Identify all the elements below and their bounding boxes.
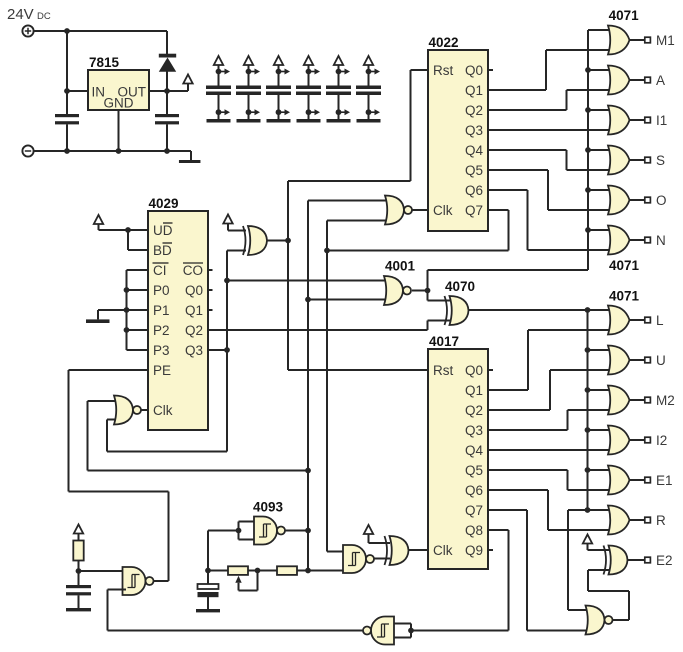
wire XOR U7 output to OR gate L and lower bus xyxy=(469,310,612,510)
wire NOR U2 output to 4022 Clk xyxy=(412,209,428,211)
junction bus at OR gate N xyxy=(585,227,591,233)
junction at diode anode / OUT xyxy=(164,88,170,94)
pin stub 4029 Q0 xyxy=(208,289,213,291)
supply arrow +15V decoupling 1 xyxy=(214,56,223,65)
OR gate 4071 output L xyxy=(608,306,630,335)
wire C3 to ground xyxy=(78,595,80,608)
wire Q7 net vertical (4022 Q7 to NOR U2 bottom, NAND U9 top) xyxy=(327,221,387,552)
svg-text:Q9: Q9 xyxy=(465,543,483,558)
svg-text:Q3: Q3 xyxy=(465,423,483,438)
wire bus stub to I1 top input xyxy=(588,109,611,111)
wire R2 to 4093 net and NAND U9 bottom input xyxy=(297,570,346,572)
overline on CO xyxy=(183,262,203,264)
wire 4017 Q8 to NAND U13 inputs xyxy=(411,530,509,631)
junction C1 at 0V rail xyxy=(64,148,70,154)
junction Q7 net xyxy=(324,248,330,254)
wire 0V bottom rail xyxy=(34,151,191,160)
wire 4022 Q3 to OR gate I1 xyxy=(488,129,611,131)
pin labels 4017 xyxy=(433,363,453,558)
resistor R2 xyxy=(277,566,297,575)
supply arrow +15V decoupling 4 xyxy=(304,56,313,65)
svg-text:GND: GND xyxy=(104,96,134,111)
svg-text:4022: 4022 xyxy=(429,35,459,50)
svg-text:R: R xyxy=(656,513,666,528)
pin stub 4029 Q1 xyxy=(208,309,213,311)
wire +15V to XOR U10 top input xyxy=(369,534,391,543)
wire output O to terminal xyxy=(630,199,645,201)
pin stub 4029 CO xyxy=(208,269,213,271)
decoupling capacitor 2 plates xyxy=(236,86,261,96)
svg-text:Rst: Rst xyxy=(433,63,453,78)
wire 4017 Q3 to OR gate M2 xyxy=(488,410,611,430)
XOR gate U7 shape xyxy=(445,296,469,325)
terminal square N xyxy=(645,237,651,243)
wire NOR U5 output to XOR U7 top input xyxy=(428,291,454,301)
junction decoupling 3 top xyxy=(276,69,282,75)
junction bus at OR gate I1 xyxy=(585,107,591,113)
junction NOR U5 output xyxy=(425,288,431,294)
decoupling capacitor 6 plates xyxy=(356,86,381,96)
svg-text:4017: 4017 xyxy=(429,334,459,349)
wire bus stub to M2 top input xyxy=(588,389,612,391)
voltage regulator 7815 xyxy=(88,70,149,111)
svg-text:Q3: Q3 xyxy=(465,123,483,138)
wire decoupling capacitor 1 xyxy=(218,65,220,119)
OR gate 4071 output M2 xyxy=(608,386,630,415)
svg-text:UD: UD xyxy=(153,223,173,238)
junction lower bus at E1 xyxy=(585,467,591,473)
svg-text:Q1: Q1 xyxy=(185,303,203,318)
svg-text:Q5: Q5 xyxy=(465,463,483,478)
junction 4093 net at 4001 bottom input xyxy=(305,297,311,303)
svg-text:E2: E2 xyxy=(656,553,673,568)
wire bus to R top input and NOR U14 top input xyxy=(568,510,611,610)
wire decoupling capacitor 3 xyxy=(278,65,280,119)
terminal square E2 xyxy=(645,557,651,563)
svg-text:PE: PE xyxy=(153,363,171,378)
wire 4029 Q2 to XOR U7 bottom input xyxy=(208,321,453,331)
pin stub 4022 Q0 xyxy=(488,69,493,71)
OR gate 4071 output M1 xyxy=(608,26,630,55)
terminal square M1 xyxy=(645,37,651,43)
wire 4022 Q6 to OR gate N xyxy=(488,190,611,250)
ground decoupling 5 xyxy=(327,119,351,123)
ground oscillator 1 xyxy=(66,608,91,611)
XOR gate U10 shape xyxy=(385,536,409,565)
logic low bar at 4029 parallel inputs xyxy=(86,310,127,323)
NOR gate U5 shape xyxy=(384,276,411,305)
wire R3 to RC node oscillator 1 xyxy=(79,561,127,572)
svg-text:U: U xyxy=(656,353,666,368)
svg-text:CI: CI xyxy=(153,263,167,278)
wire 4029 PE to oscillator 1 output xyxy=(69,370,169,581)
svg-text:Q0: Q0 xyxy=(465,63,483,78)
ground decoupling 2 xyxy=(237,119,261,123)
junction top rail / input node xyxy=(64,28,70,34)
capacitor C3 plates xyxy=(66,585,91,595)
svg-text:Q6: Q6 xyxy=(465,483,483,498)
wire bus stub to N top input xyxy=(588,229,611,231)
ground decoupling 1 xyxy=(207,119,231,123)
OR gate 4071 output I1 xyxy=(608,106,630,135)
junction lower bus at I2 xyxy=(585,427,591,433)
svg-text:Clk: Clk xyxy=(153,403,173,418)
wire +15V to 4029 UD and BD pins xyxy=(99,224,149,250)
wire 4017 Q5 to OR gate E1 xyxy=(488,470,611,490)
wire decoupling capacitor 5 xyxy=(338,65,340,119)
svg-text:O: O xyxy=(656,193,667,208)
wire 4022 Q7 to Q7 net xyxy=(327,210,509,251)
svg-text:I2: I2 xyxy=(656,433,667,448)
svg-text:Q1: Q1 xyxy=(465,83,483,98)
supply arrow +15V decoupling 3 xyxy=(274,56,283,65)
NOR gate U2 shape xyxy=(385,196,412,225)
wire 4017 Q6 to OR gate R xyxy=(488,490,611,530)
decoupling capacitor 5 plates xyxy=(326,86,351,96)
svg-text:CO: CO xyxy=(183,263,203,278)
wire 7815 GND to 0V rail xyxy=(118,110,120,151)
svg-text:4029: 4029 xyxy=(149,196,179,211)
wire 4017 Q4 to OR gate I2 xyxy=(488,449,611,451)
svg-text:Q4: Q4 xyxy=(465,143,484,158)
svg-text:P2: P2 xyxy=(153,323,170,338)
junction bus at OR gate O xyxy=(585,187,591,193)
wire 4022 Q1 to OR gate M1 xyxy=(488,50,611,90)
svg-text:Q7: Q7 xyxy=(465,503,483,518)
trimmer resistor P1 xyxy=(228,566,258,590)
terminal + (24V input) xyxy=(22,25,33,36)
wire output E1 to terminal xyxy=(630,479,645,481)
pin stub 4017 Q0 xyxy=(488,369,493,371)
decoupling capacitor 1 plates xyxy=(206,86,231,96)
svg-text:A: A xyxy=(656,73,665,88)
supply arrow +15V decoupling 2 xyxy=(244,56,253,65)
junction decoupling 3 bottom xyxy=(276,109,282,115)
capacitor C2 plates xyxy=(155,114,179,124)
diode D1 across regulator xyxy=(159,31,176,91)
svg-text:Q7: Q7 xyxy=(465,203,483,218)
svg-text:4070: 4070 xyxy=(445,279,475,294)
supply arrow +15V at regulator output xyxy=(183,75,192,84)
svg-text:N: N xyxy=(656,233,666,248)
OR gate 4071 output U xyxy=(608,346,630,375)
svg-text:4071: 4071 xyxy=(609,289,640,304)
terminal square R xyxy=(645,517,651,523)
pin labels 4029 left xyxy=(153,223,173,418)
svg-text:Q8: Q8 xyxy=(465,523,483,538)
resistor R3 xyxy=(73,534,83,561)
capacitor C1 plates xyxy=(55,114,79,124)
wire NOR U3 output to 4029 Clk xyxy=(141,409,148,411)
junction decoupling 5 bottom xyxy=(336,109,342,115)
XOR gate E2 shape xyxy=(604,546,628,575)
svg-text:Q1: Q1 xyxy=(465,383,483,398)
wire XOR U4 output to 4022 Rst and 4017 Rst xyxy=(267,70,428,370)
NAND gate U8 shape xyxy=(254,517,285,545)
wire output E2 to terminal xyxy=(628,559,645,561)
svg-text:Q0: Q0 xyxy=(465,363,483,378)
svg-text:P1: P1 xyxy=(153,303,170,318)
svg-text:M1: M1 xyxy=(656,33,675,48)
junction lower bus at R xyxy=(585,507,591,513)
wire 4017 Q1 to OR gate L xyxy=(488,330,611,390)
terminal - (0V input) xyxy=(22,145,33,156)
overlines on UD BD CI xyxy=(153,223,173,263)
pin labels 4022 xyxy=(433,63,453,218)
OR gate 4071 output O xyxy=(608,186,630,215)
svg-text:Rst: Rst xyxy=(433,363,453,378)
wire decoupling capacitor 6 xyxy=(368,65,370,119)
XOR gate U4 shape xyxy=(243,226,267,255)
OR gate 4071 output S xyxy=(608,146,630,175)
junction lower bus at U xyxy=(585,347,591,353)
wire 4022 Q4 to OR gate S xyxy=(488,150,611,170)
wire 24V top rail xyxy=(34,30,167,32)
wire bus stub to I2 top input xyxy=(588,429,612,431)
svg-text:Q3: Q3 xyxy=(185,343,203,358)
junction decoupling 4 top xyxy=(306,69,312,75)
svg-text:Q0: Q0 xyxy=(185,283,203,298)
electrolytic capacitor C4 xyxy=(198,571,219,610)
wire 4022 Q5 to OR gate O xyxy=(488,170,611,210)
junction XOR U4 output xyxy=(285,238,291,244)
wire bus stub to A top input xyxy=(588,69,611,71)
supply arrow +15V decoupling 6 xyxy=(364,56,373,65)
junction P0 tie xyxy=(124,287,130,293)
ground bar xyxy=(179,160,201,163)
wire 4017 Q2 to OR gate U xyxy=(488,370,611,410)
svg-text:Q5: Q5 xyxy=(465,163,483,178)
OR gate 4071 output N xyxy=(608,226,630,255)
wire 4022 Q2 to OR gate A xyxy=(488,90,611,110)
capacitor C3 xyxy=(78,571,80,585)
terminal square O xyxy=(645,197,651,203)
junction decoupling 2 top xyxy=(246,69,252,75)
svg-text:4071: 4071 xyxy=(609,8,640,23)
svg-text:P0: P0 xyxy=(153,283,170,298)
svg-text:L: L xyxy=(656,313,664,328)
terminal square A xyxy=(645,77,651,83)
wire NAND U8 output to 4093 net xyxy=(285,530,308,532)
supply arrow +15V at XOR U10 input xyxy=(364,525,373,534)
junction UD/BD tie xyxy=(125,227,131,233)
svg-text:4001: 4001 xyxy=(385,259,416,274)
junction C2 at 0V rail xyxy=(164,148,170,154)
svg-text:E1: E1 xyxy=(656,473,673,488)
wire output I2 to terminal xyxy=(630,439,645,441)
supply arrow +15V at XOR E2 input xyxy=(583,535,592,544)
junction RC node oscillator 2 xyxy=(205,568,211,574)
svg-text:Q4: Q4 xyxy=(465,443,484,458)
wire NAND U8 input tie bracket xyxy=(208,522,257,571)
supply arrow +15V at 4029 U/D input xyxy=(94,215,103,224)
junction Q3 net at 4001 top input xyxy=(224,278,230,284)
wire NAND U13 input tie bracket xyxy=(394,624,411,638)
junction 7815 GND at 0V rail xyxy=(116,148,122,154)
svg-text:4093: 4093 xyxy=(253,500,284,515)
wire 4017 Q7 to NOR U14 bottom input xyxy=(488,510,588,631)
terminal square S xyxy=(645,157,651,163)
NOR gate U3 shape xyxy=(114,396,141,425)
junction 4093 net bottom xyxy=(305,568,311,574)
wire output M1 to terminal xyxy=(630,39,645,41)
svg-text:DC: DC xyxy=(37,11,51,22)
NAND gate U13 shape xyxy=(363,617,394,645)
OR gate 4071 output A xyxy=(608,66,630,95)
wire RC node to trimmer P1 xyxy=(208,570,228,572)
wire +15V to XOR E2 top input xyxy=(588,544,613,551)
svg-text:S: S xyxy=(656,153,665,168)
junction bus at OR gate A xyxy=(585,67,591,73)
junction decoupling 1 bottom xyxy=(216,109,222,115)
junction P1 tie xyxy=(124,307,130,313)
IC 4022 box xyxy=(428,50,488,231)
IC 4029 box xyxy=(148,211,208,430)
NOR gate U14 shape xyxy=(586,606,613,635)
wire 4093 output net vertical (to NOR U2 top, 4001 bottom, NOR U3 top) xyxy=(308,201,387,571)
wire decoupling capacitor 4 xyxy=(308,65,310,119)
wire Q3 net vertical (4029 Q3 to XOR U4, 4001, NOR U3) xyxy=(208,251,387,452)
IC 4017 box xyxy=(428,349,488,569)
wire 7815 OUT to +15V node xyxy=(149,84,188,92)
junction decoupling 6 bottom xyxy=(366,109,372,115)
ground oscillator 2 xyxy=(196,609,220,612)
svg-text:P3: P3 xyxy=(153,343,170,358)
wire input node down to 7815 IN and C1 xyxy=(67,31,88,114)
junction lower bus at L xyxy=(585,307,591,313)
wire C2 stems xyxy=(166,91,168,151)
wire NOR U14 output to XOR E2 bottom input xyxy=(588,570,629,620)
wire NAND U11 output to PE net xyxy=(154,580,169,582)
svg-text:BD: BD xyxy=(153,243,172,258)
junction RC node oscillator 1 xyxy=(76,568,82,574)
svg-text:Q2: Q2 xyxy=(185,323,203,338)
terminal square I1 xyxy=(645,117,651,123)
wire NOR U3 top input from 4093 output net xyxy=(88,401,309,471)
wire NAND U9 output to XOR U10 bottom input xyxy=(374,558,390,560)
label 24V DC input xyxy=(7,6,51,23)
wire output R to terminal xyxy=(630,519,645,521)
pin labels 4029 right xyxy=(183,263,203,358)
wire NOR U3 bottom input from Q3 net xyxy=(107,420,227,452)
svg-text:4071: 4071 xyxy=(609,258,640,273)
svg-text:Clk: Clk xyxy=(433,203,453,218)
ground decoupling 4 xyxy=(297,119,321,123)
junction bus at OR gate S xyxy=(585,147,591,153)
OR gate 4071 output E1 xyxy=(608,466,630,495)
junction 4093 net at NOR U3 top branch xyxy=(305,468,311,474)
wire bus stub to S top input xyxy=(588,149,611,151)
svg-text:Q2: Q2 xyxy=(465,103,483,118)
decoupling capacitor 4 plates xyxy=(296,86,321,96)
wire NAND U11 bottom input from NAND U13 output xyxy=(108,590,364,631)
supply arrow +15V at XOR U4 input xyxy=(223,215,232,224)
supply arrow +15V decoupling 5 xyxy=(334,56,343,65)
wire +15V to XOR U4 top input xyxy=(228,224,246,231)
svg-text:7815: 7815 xyxy=(89,55,120,70)
junction decoupling 2 bottom xyxy=(246,109,252,115)
ground decoupling 3 xyxy=(267,119,291,123)
wire output S to terminal xyxy=(630,159,645,161)
wire XOR U10 output to 4017 Clk xyxy=(409,549,429,551)
wire NOR U5 output to top OR-gate bus xyxy=(428,30,612,291)
ground decoupling 6 xyxy=(357,119,381,123)
junction P2 tie xyxy=(124,327,130,333)
terminal square U xyxy=(645,357,651,363)
wire bus stub to E1 top input xyxy=(588,469,612,471)
terminal square E1 xyxy=(645,477,651,483)
terminal square M2 xyxy=(645,397,651,403)
wire CI-P0-P1-P2-P3 tie chain xyxy=(127,270,149,350)
svg-text:Q6: Q6 xyxy=(465,183,483,198)
svg-text:24V: 24V xyxy=(7,6,34,23)
junction trimmer wiper tie xyxy=(255,568,261,574)
junction Q3 net at 4029 Q3 pin xyxy=(224,347,230,353)
svg-text:Clk: Clk xyxy=(433,543,453,558)
terminal square L xyxy=(645,317,651,323)
junction at 7815 IN xyxy=(64,88,70,94)
svg-text:Q2: Q2 xyxy=(465,403,483,418)
junction NAND U13 input tie xyxy=(408,628,414,634)
junction NAND U8 output xyxy=(305,528,311,534)
wire bus stub to U top input xyxy=(588,349,612,351)
supply arrow +15V at R3 xyxy=(74,525,83,534)
junction decoupling 6 top xyxy=(366,69,372,75)
junction lower bus at M2 xyxy=(585,387,591,393)
OR gate 4071 output I2 xyxy=(608,426,630,455)
junction decoupling 5 top xyxy=(336,69,342,75)
terminal square I2 xyxy=(645,437,651,443)
junction decoupling 4 bottom xyxy=(306,109,312,115)
wire decoupling capacitor 2 xyxy=(248,65,250,119)
junction decoupling 1 top xyxy=(216,69,222,75)
wire output A to terminal xyxy=(630,79,645,81)
wire output I1 to terminal xyxy=(630,119,645,121)
wire output M2 to terminal xyxy=(630,399,645,401)
NAND gate U9 shape xyxy=(343,545,374,573)
pin stub 4017 Q9 xyxy=(488,549,493,551)
decoupling capacitor 3 plates xyxy=(266,86,291,96)
wire output U to terminal xyxy=(630,359,645,361)
OR gate 4071 output R xyxy=(608,506,630,535)
wire C1 to 0V rail xyxy=(66,124,68,151)
svg-text:I1: I1 xyxy=(656,113,667,128)
wire NOR U5 output node xyxy=(412,290,428,292)
NAND gate U11 shape xyxy=(123,567,154,595)
wire output N to terminal xyxy=(630,239,645,241)
junction NAND U8 input tie xyxy=(236,528,242,534)
wire trimmer to R2 xyxy=(248,570,277,572)
wire bus stub to O top input xyxy=(588,189,611,191)
svg-text:M2: M2 xyxy=(656,393,675,408)
wire output L to terminal xyxy=(630,319,645,321)
